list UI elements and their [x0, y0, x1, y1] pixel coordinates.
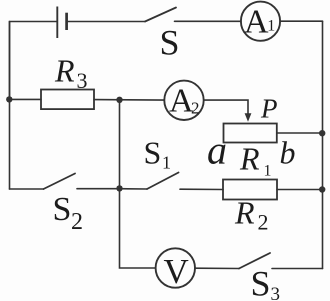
svg-text:2: 2 [258, 210, 269, 235]
svg-text:3: 3 [271, 284, 281, 301]
svg-text:S: S [53, 191, 72, 228]
resistor R3 [41, 90, 94, 110]
svg-text:b: b [280, 135, 296, 171]
label A1 [244, 3, 275, 40]
battery B1 [57, 7, 66, 39]
label S1 [144, 134, 172, 172]
label R3 [54, 53, 88, 93]
label R1 [239, 141, 272, 180]
svg-text:3: 3 [77, 68, 88, 93]
wire S1 to R2 [180, 188, 223, 190]
switch S blade [145, 8, 176, 22]
svg-text:R: R [234, 195, 255, 231]
svg-text:R: R [239, 141, 260, 177]
label S3 [251, 264, 281, 301]
wire S3 to right edge [272, 268, 323, 270]
wire R2 to right edge [277, 189, 323, 191]
wire battery to switch S [67, 21, 145, 23]
wire top-left horizontal [10, 22, 58, 100]
ammeter A1 circle [241, 2, 280, 41]
label A2 [169, 83, 200, 120]
wire junction down to voltmeter [120, 189, 156, 268]
svg-text:P: P [260, 94, 278, 124]
switch S3 blade [239, 253, 270, 269]
svg-text:R: R [54, 53, 75, 89]
wire A1 to right edge [280, 20, 322, 22]
switch S1 blade [147, 173, 179, 190]
svg-text:1: 1 [267, 18, 275, 35]
wire V to S3 [195, 267, 239, 269]
svg-text:A: A [244, 3, 269, 40]
wire node down to S2/S1 junction [119, 100, 121, 189]
svg-text:V: V [164, 252, 189, 291]
wire pot b terminal to right edge [277, 132, 323, 134]
junction node R3/A2/vertical [116, 97, 122, 103]
resistor R2 [223, 180, 277, 200]
svg-text:S: S [251, 264, 271, 301]
svg-text:a: a [207, 128, 227, 173]
junction node pot-right edge [319, 130, 325, 136]
potentiometer P body [224, 124, 277, 143]
junction node S2/S1/vertical [116, 185, 122, 191]
svg-text:2: 2 [71, 209, 83, 235]
wire right vertical [322, 21, 324, 268]
label S2 [53, 191, 84, 235]
svg-text:2: 2 [191, 98, 200, 117]
svg-text:S: S [160, 23, 180, 63]
wire S2 to junction [77, 188, 120, 190]
wiper arrowhead of potentiometer [245, 113, 252, 122]
wire left edge to S2 [10, 188, 44, 190]
wire left to R3 [10, 98, 42, 100]
wire junction to S1 [120, 188, 148, 190]
label R2 [234, 195, 269, 235]
wire switch S to ammeter A1 [175, 20, 242, 22]
voltmeter V circle [156, 248, 195, 287]
wire R3 to node [94, 99, 164, 102]
junction node left-R3 [6, 96, 12, 102]
ammeter A2 circle [164, 81, 203, 120]
svg-text:1: 1 [162, 153, 171, 173]
switch S2 blade [44, 174, 76, 190]
junction node R2-right edge [319, 186, 325, 192]
svg-text:1: 1 [264, 163, 272, 180]
svg-text:S: S [144, 134, 162, 170]
wire left vertical [9, 22, 11, 190]
wire A2 to wiper arm [204, 100, 248, 114]
